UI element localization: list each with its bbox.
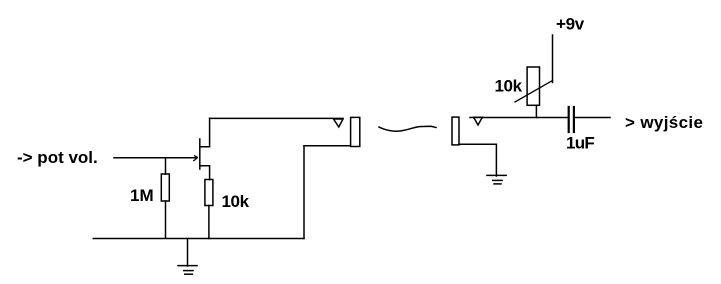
- jack J2 body: [452, 117, 459, 145]
- svg-text:+9v: +9v: [556, 15, 585, 34]
- jack J2 tip triangle: [474, 117, 483, 125]
- node gate junction: [165, 158, 167, 174]
- resistor 1M: [161, 174, 169, 201]
- wire +9v supply: [552, 35, 554, 83]
- svg-text:-> pot vol.: -> pot vol.: [17, 148, 98, 167]
- potentiometer wiper arrow: [515, 81, 553, 103]
- wire jack J1 sleeve: [304, 145, 351, 147]
- wire 1M to ground bus: [165, 201, 167, 238]
- wire drain to jack J1 tip: [210, 117, 343, 119]
- svg-text:> wyjście: > wyjście: [625, 113, 703, 132]
- capacitor 1uF plate right: [573, 107, 575, 132]
- wire jack J2 sleeve: [459, 144, 496, 176]
- transistor Q1 source lead: [200, 166, 210, 180]
- wire jack J2 tip to cap: [470, 117, 568, 119]
- wire ground bus: [93, 238, 304, 240]
- wire cap to output: [575, 117, 610, 119]
- svg-text:1M: 1M: [130, 186, 154, 205]
- ground right: [487, 175, 506, 184]
- jack J1 tip triangle: [334, 119, 344, 127]
- potentiometer 10k body: [527, 67, 539, 105]
- capacitor 1uF plate left: [568, 107, 570, 132]
- svg-text:10k: 10k: [495, 77, 523, 96]
- resistor 10k: [205, 180, 213, 206]
- transistor Q1 gate arrowhead: [194, 156, 198, 161]
- transistor Q1 channel bar: [199, 139, 201, 169]
- wire bus to ground: [187, 239, 189, 267]
- svg-text:10k: 10k: [222, 192, 250, 211]
- jack J1 body: [351, 117, 360, 146]
- wire pot to output line: [535, 105, 537, 117]
- svg-text:1uF: 1uF: [566, 134, 594, 153]
- transistor Q1 drain lead: [200, 118, 210, 146]
- ground left: [178, 266, 197, 275]
- wire cable squiggle: [379, 126, 436, 131]
- wire sleeve down to bus: [303, 146, 305, 239]
- wire input to gate: [114, 157, 197, 159]
- wire 10k to ground bus: [208, 206, 210, 239]
